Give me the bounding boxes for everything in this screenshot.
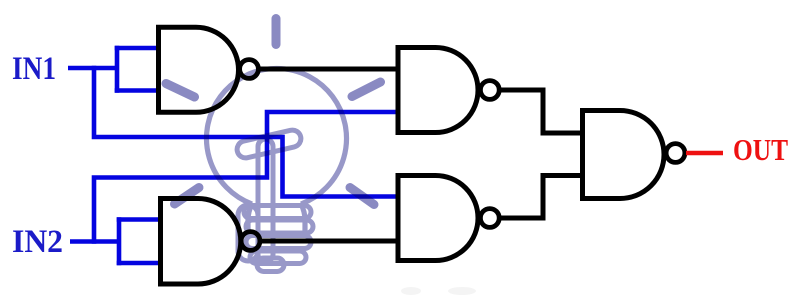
svg-text:IN2: IN2: [12, 224, 63, 260]
light ray top: [272, 19, 281, 45]
NAND gate U3 (top-middle): [398, 48, 478, 133]
svg-text:IN1: IN1: [12, 51, 56, 87]
bubble gate U5: [666, 144, 685, 163]
light ray lower-right: [350, 188, 374, 205]
wire gate2 output to gate4 bottom input: [252, 239, 400, 244]
filament crossbar pill: [235, 128, 302, 159]
light ray upper-left: [166, 84, 195, 98]
NAND gate U2 (bottom-left, inputs IN2): [161, 199, 241, 285]
wire gate1 top input: [115, 46, 160, 51]
bulb glass circle: [206, 68, 346, 204]
wire gate1 output to gate3 top input: [250, 67, 400, 72]
NAND gate U4 (bottom-middle): [398, 176, 478, 261]
bulb neck left: [248, 204, 252, 236]
filament stem pill: [258, 139, 273, 262]
wire IN1 horizontal stub: [68, 66, 117, 71]
wire gate1 input loop: [115, 46, 120, 93]
wire IN2 up branch to gate3: [94, 112, 400, 244]
NAND gate U1 (top-left, inputs IN1): [159, 27, 239, 112]
wire gate1 bottom input: [115, 88, 160, 93]
NAND gate U5 (right, output): [583, 111, 665, 199]
wire IN1 down branch to gate4: [94, 66, 400, 197]
wire gate2 input loop: [117, 217, 122, 265]
bubble gate U2: [241, 232, 260, 251]
bubble gate U3: [480, 81, 499, 100]
light ray upper-right: [352, 82, 381, 97]
bubble gate U4: [480, 209, 499, 228]
bulb neck right: [301, 204, 305, 232]
hand finger 2: [246, 220, 313, 233]
svg-text:OUT: OUT: [733, 132, 788, 167]
hand finger 1: [244, 206, 311, 219]
bubble gate U1: [240, 60, 259, 79]
hand finger 3: [246, 236, 311, 249]
wire gate2 bottom input: [117, 261, 162, 266]
wire OUT (red): [686, 151, 723, 156]
hand finger 4: [250, 251, 306, 264]
hand bottom hook: [257, 258, 284, 272]
faint smudge bottom center: [401, 287, 421, 295]
hand thumb pill: [238, 205, 258, 261]
wire gate3 output to gate5 top input: [490, 90, 583, 133]
wire gate4 output to gate5 bottom input: [490, 176, 583, 219]
light ray lower-left: [175, 188, 200, 205]
wire gate2 top input: [117, 217, 162, 222]
wire IN2 horizontal stub: [70, 239, 119, 244]
